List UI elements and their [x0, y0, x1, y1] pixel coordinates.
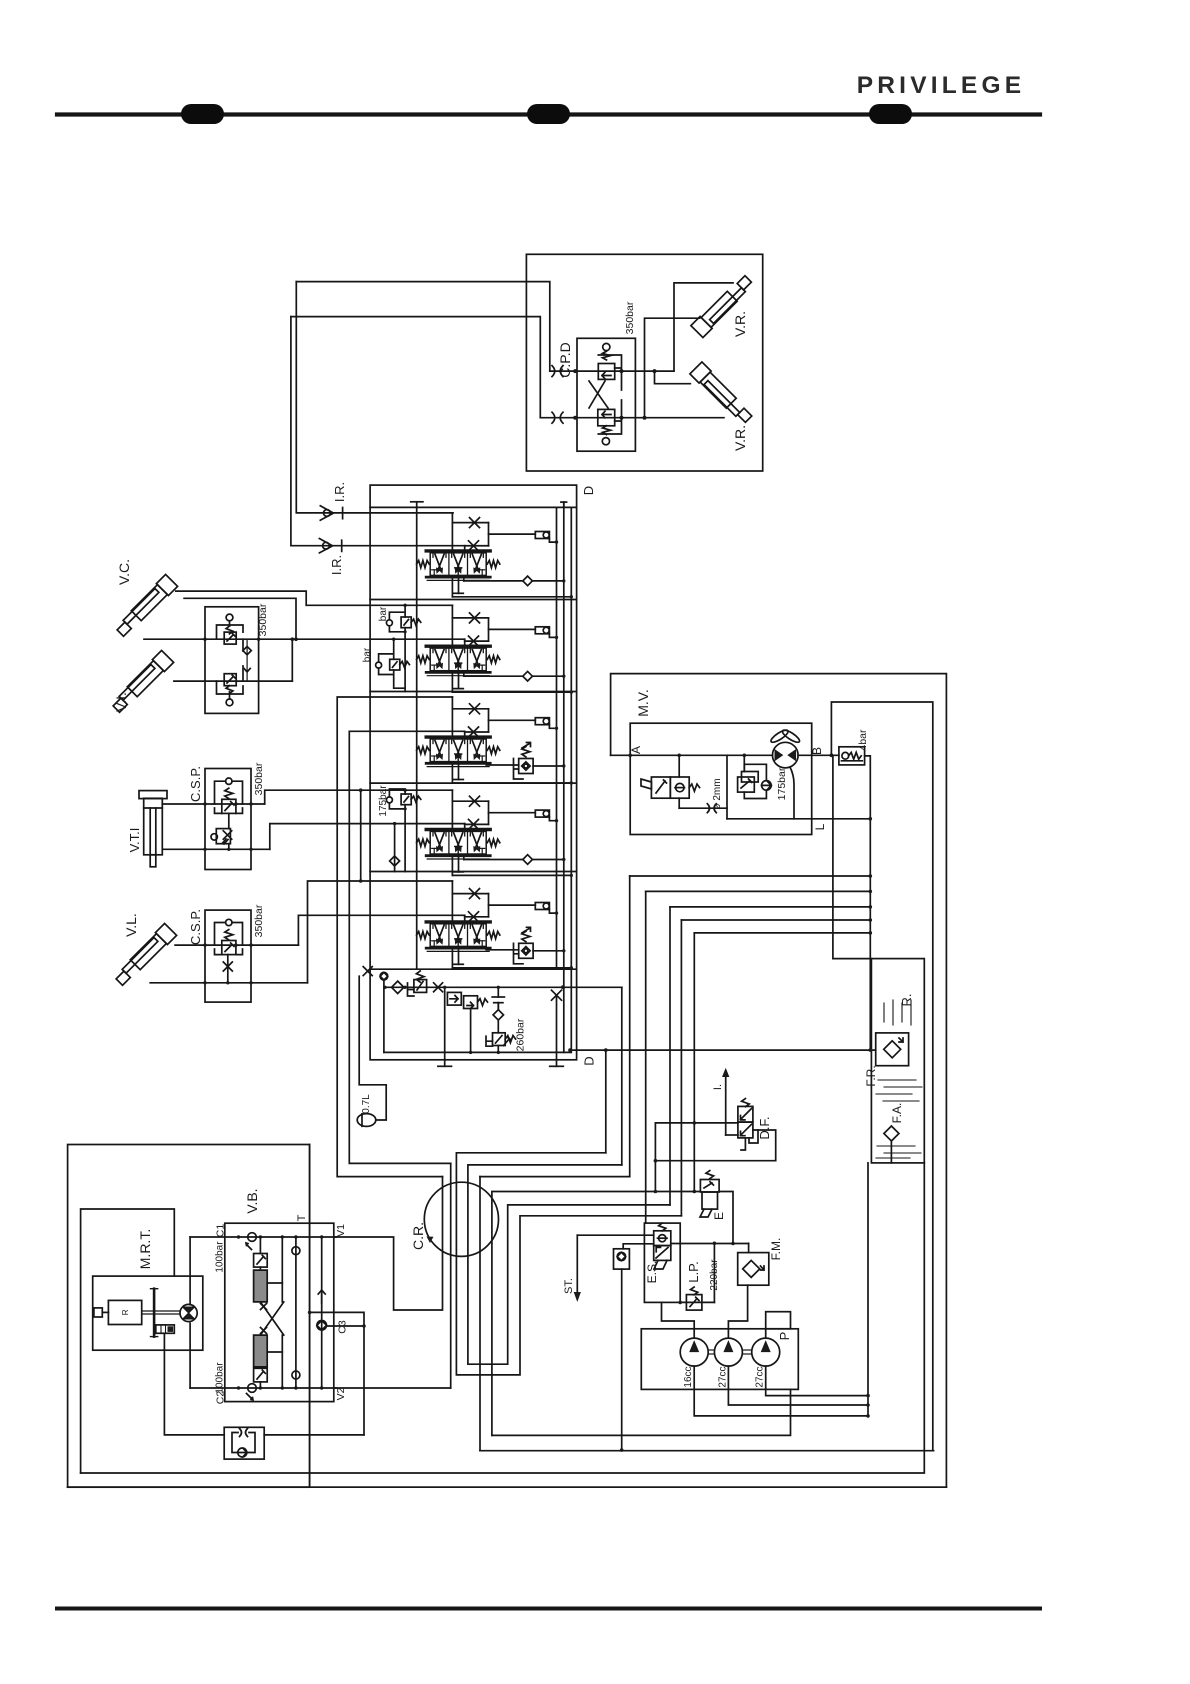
svg-text:bar: bar: [378, 606, 389, 621]
shuttle diamond endblock: [493, 1010, 503, 1020]
wire V1 staircase: [334, 1177, 443, 1310]
solenoid valve MV: [651, 777, 670, 798]
box M.R.T.: [81, 1209, 175, 1473]
wire IR line 1: [296, 282, 453, 513]
wire FM to P2: [728, 1285, 747, 1338]
wire circle v2: [450, 1163, 452, 1388]
section 5 port vertical A: [451, 881, 453, 922]
section 1 drain stub: [458, 577, 460, 593]
wire P1 out: [694, 1366, 868, 1416]
hydraulic motor MV: [773, 742, 799, 768]
check valve lower (CPD): [598, 409, 615, 425]
svg-text:L: L: [813, 823, 827, 830]
orifice circle C1: [248, 1233, 257, 1242]
wire return L2: [646, 890, 871, 892]
wire P line riser: [621, 987, 623, 1165]
svg-text:M.R.T.: M.R.T.: [137, 1229, 153, 1269]
svg-text:F.A.: F.A.: [890, 1103, 904, 1124]
wire to cyl2 cap: [655, 371, 691, 384]
M.V. box: [630, 723, 812, 834]
box bottom-left outer: [68, 1145, 310, 1488]
relief valve bar lower (sec2): [390, 659, 400, 670]
wire check line B: [540, 417, 724, 419]
cylinder V.C.: [114, 574, 178, 638]
orifice circle C2: [248, 1384, 257, 1393]
wire ST branch: [577, 1234, 653, 1236]
wire circle top link: [480, 1176, 630, 1178]
header pill 2: [527, 104, 570, 124]
check box bottom: [224, 1427, 264, 1459]
accumulator wire: [359, 976, 386, 1120]
svg-text:I.: I.: [712, 1084, 724, 1090]
wire VTI top port: [162, 803, 264, 805]
cylinder V.L.: [113, 923, 177, 987]
bracket 175bar sec4: [389, 789, 405, 872]
section 1 plug X upper: [470, 518, 480, 528]
ball circle lower: [602, 438, 609, 445]
wire VI bottom line: [174, 680, 292, 682]
wire VL top port: [175, 944, 298, 946]
section 5 compensator valve: [519, 943, 533, 958]
footer rule: [57, 1607, 1040, 1611]
svg-text:260bar: 260bar: [515, 1018, 527, 1051]
svg-text:27cc: 27cc: [755, 1366, 766, 1387]
svg-text:D: D: [582, 1056, 597, 1065]
section 2 wire B to coil: [488, 618, 490, 641]
section 2 drain stub: [458, 673, 460, 689]
header pill 1: [181, 104, 224, 124]
relief 100bar upper: [254, 1254, 268, 1268]
section 3 plug X lower: [469, 727, 479, 737]
wire C2 line: [190, 1387, 336, 1389]
valve bank outer box: [370, 485, 576, 1060]
section 5 coil drain hook: [549, 910, 556, 914]
wire B line: [798, 754, 839, 756]
section 4 plug X lower: [469, 819, 479, 829]
section 2 bridge line: [452, 617, 488, 619]
section 5 plug X upper: [470, 889, 480, 899]
svg-text:C.S.P.: C.S.P.: [188, 766, 203, 802]
svg-text:PRIVILEGE: PRIVILEGE: [857, 72, 1026, 99]
reducer valve endblock: [464, 996, 478, 1009]
section 1 lower rail line: [451, 577, 453, 597]
section 5 port vertical B: [464, 915, 466, 922]
svg-text:F.R.: F.R.: [864, 1065, 878, 1086]
cross over X pattern: [260, 1302, 283, 1335]
section 1 wire B to coil: [488, 523, 490, 546]
gauge link: [623, 1244, 654, 1249]
svg-text:350bar: 350bar: [624, 301, 636, 334]
section 3 compensator line: [486, 764, 519, 766]
svg-text:350bar: 350bar: [253, 762, 265, 795]
solenoid flag E.S.: [654, 1260, 667, 1269]
bus wire sec3 A: [337, 697, 452, 1177]
throttle X CSP2: [223, 962, 232, 971]
relief 220bar: [686, 1295, 702, 1311]
wire helm to check box: [164, 1333, 364, 1435]
wire FM top: [748, 1243, 750, 1252]
section 5 plug X lower: [469, 912, 479, 922]
wire bottom rail A: [492, 1389, 791, 1435]
svg-text:V.T.I: V.T.I: [127, 828, 142, 853]
wire P2 out: [728, 1366, 868, 1405]
cylinder V.R. lower: [690, 362, 754, 426]
wire VL bottom to sec5: [308, 881, 453, 983]
bracket lower check: [598, 400, 621, 434]
check valve upper (VC box): [224, 632, 236, 644]
wire V2 line: [334, 1387, 451, 1389]
svg-text:R.: R.: [899, 994, 914, 1007]
accumulator E: [700, 1180, 719, 1193]
svg-text:V.I.: V.I.: [113, 692, 129, 712]
bank top inner rail: [370, 506, 576, 508]
section dividers: [370, 599, 576, 601]
check diamond sec4: [394, 824, 396, 872]
section 4 plug X upper: [470, 796, 480, 806]
wire helm ports riser: [189, 1237, 191, 1305]
throttle X endblock: [434, 983, 443, 992]
svg-text:V.L.: V.L.: [123, 913, 139, 937]
section 4 bridge line: [452, 800, 488, 802]
section 4 lower rail line: [451, 856, 453, 876]
bracket bar upper: [389, 605, 405, 691]
section 1 shuttle line: [463, 577, 465, 581]
wire VTI bottom port: [162, 848, 269, 850]
wire DF pilot: [741, 1130, 758, 1150]
section 2 shuttle diamond: [524, 672, 532, 680]
valve D.F.: [738, 1106, 753, 1122]
bank right P rail: [556, 507, 558, 969]
svg-text:T: T: [296, 1214, 308, 1221]
section 5 drain stub: [458, 948, 460, 964]
tank liquid hatches: [883, 1003, 885, 1022]
helm small square: [94, 1308, 102, 1317]
connector I.R. 2: [323, 542, 330, 549]
wire P3 out: [766, 1366, 868, 1396]
wire to cyl1 cap: [674, 283, 733, 371]
box C.S.P. 1: [205, 769, 251, 870]
section 4 pilot coil Y4: [535, 810, 549, 817]
bracket bar lower: [379, 639, 406, 688]
wire B branch to tank: [833, 755, 872, 958]
relief 100bar lower: [254, 1368, 268, 1382]
svg-text:D.F.: D.F.: [757, 1116, 772, 1139]
throttle check CSP1: [216, 829, 230, 844]
section 2 coil drain hook: [549, 634, 556, 638]
wire C3 out: [327, 1325, 365, 1327]
wire circle v3 U-turn: [456, 1153, 681, 1375]
bank right T2 rail: [563, 502, 565, 1052]
valve E.S.: [654, 1231, 671, 1246]
svg-text:ST.: ST.: [563, 1278, 575, 1294]
reducer drain endblock: [470, 1009, 472, 1053]
section 4 port vertical B: [464, 824, 466, 830]
wire DF left: [655, 1122, 738, 1124]
svg-text:E: E: [712, 1212, 726, 1220]
bus wire sec3 B: [349, 731, 464, 1163]
wire B riser to right bus: [831, 702, 932, 1450]
section 1 shuttle diamond: [524, 577, 532, 585]
pump aux box: [766, 1312, 791, 1329]
section 5 pilot coil Y5: [535, 903, 549, 910]
wire P1 inlet: [662, 1302, 695, 1338]
ball circle upper: [603, 343, 610, 350]
section 5 valve DV5: [417, 922, 500, 952]
gauge line: [671, 1243, 749, 1245]
wire bottom rail C: [81, 1163, 925, 1473]
VB internal verticals: [281, 1237, 283, 1302]
section 2 port vertical B: [464, 639, 466, 646]
section 3 port vertical B: [464, 731, 466, 737]
wire C1 line: [190, 1236, 336, 1238]
box helm pump: [93, 1276, 203, 1350]
section 3 port vertical A: [451, 697, 453, 737]
plug X port A: [552, 366, 555, 377]
end block ball: [380, 972, 388, 980]
wire orifice riser: [726, 755, 728, 819]
plug X port B: [552, 412, 555, 423]
cylinder V.R. upper: [691, 274, 755, 338]
filter F.A.: [884, 1126, 899, 1141]
bracket upper check: [598, 355, 621, 390]
check valve upper (CPD): [598, 364, 614, 380]
svg-text:ø 2mm: ø 2mm: [712, 778, 723, 809]
section 2 valve DV2: [417, 646, 500, 676]
section 3 compensator valve: [519, 759, 533, 774]
section 1 port vertical B: [464, 546, 466, 551]
svg-text:I.R.: I.R.: [329, 555, 344, 575]
svg-text:bar: bar: [362, 647, 373, 662]
svg-text:F.M.: F.M.: [769, 1238, 783, 1261]
compensator hatched lower: [254, 1335, 268, 1367]
filter diamond endblock: [392, 981, 404, 993]
svg-text:I.R.: I.R.: [332, 482, 347, 502]
svg-text:C.S.P.: C.S.P.: [188, 909, 203, 945]
check valve MV: [762, 781, 772, 791]
svg-text:16cc: 16cc: [683, 1366, 694, 1387]
section 4 wire B to coil: [488, 801, 490, 824]
end block plug X left: [363, 967, 372, 976]
svg-text:175bar: 175bar: [776, 767, 788, 800]
arrow I.: [725, 1077, 727, 1135]
relief valve endblock: [414, 980, 427, 993]
section 3 wire B to coil: [488, 709, 490, 732]
svg-text:100bar: 100bar: [215, 1241, 226, 1273]
reservoir R. box: [871, 959, 924, 1163]
svg-text:E.S.: E.S.: [645, 1261, 659, 1284]
svg-text:V.R.: V.R.: [732, 425, 748, 451]
wire VI top line: [144, 638, 465, 640]
wire P3 inlet: [765, 1329, 767, 1338]
wire tank suction: [867, 1163, 869, 1416]
section 3 plug X upper: [470, 704, 480, 714]
section 4 valve DV4: [417, 830, 500, 860]
svg-text:P: P: [777, 1332, 792, 1341]
pump 3 (27cc): [752, 1338, 780, 1366]
section 5 lower rail line: [451, 948, 453, 968]
wire return V1d: [629, 876, 631, 1177]
gauge box: [614, 1249, 630, 1269]
inner box pilot check pair: [577, 338, 635, 451]
block L.P.: [644, 1223, 680, 1302]
section 4 port vertical A: [451, 790, 453, 829]
VB check arrow: [318, 1290, 325, 1303]
svg-text:C3: C3: [337, 1320, 349, 1334]
wire bank bottom to FR: [570, 1049, 876, 1051]
helm shaft: [102, 1311, 108, 1313]
relief valve CSP1: [222, 799, 236, 813]
wire VC rod port: [184, 598, 296, 639]
wire IR line 2: [291, 317, 489, 546]
svg-text:C.R.: C.R.: [410, 1222, 426, 1250]
svg-text:L.P.: L.P.: [686, 1261, 701, 1282]
section 5 compensator line: [486, 949, 519, 951]
plug X right rail: [552, 990, 562, 1000]
wire return L1: [630, 875, 871, 877]
section 5 compensator bracket: [514, 943, 524, 964]
wire circle v5: [479, 1177, 481, 1451]
wire circle v6: [492, 1192, 701, 1436]
wire VC top port: [176, 591, 453, 605]
section 2 pilot coil Y2: [535, 627, 549, 634]
drain leg 1 endblock: [444, 987, 446, 1066]
helm outlet fitting: [156, 1325, 175, 1333]
section 4 shuttle line: [463, 856, 465, 860]
section 4 shuttle diamond: [524, 856, 532, 864]
section 5 wire B to coil: [488, 894, 490, 917]
filter F.M.: [738, 1253, 769, 1286]
wire return V4d: [680, 920, 682, 1216]
svg-text:B: B: [810, 747, 824, 755]
wire D net riser: [605, 1050, 607, 1153]
wire 4bar to tank: [865, 756, 871, 1050]
compensator hatched upper: [254, 1270, 268, 1302]
section 2 shuttle line: [463, 673, 465, 677]
filter F.R.: [876, 1033, 909, 1066]
wire return L5: [694, 932, 870, 934]
section 1 port vertical A: [451, 513, 453, 551]
wire CPD line A upper: [296, 282, 550, 372]
section 5 bridge line: [452, 893, 488, 895]
wire VB V1 to circle (done above) / bottom second rail: [68, 1486, 947, 1488]
valve 4bar: [839, 747, 865, 765]
cylinder V.I.: [110, 650, 174, 714]
wire VL top to sec5: [298, 915, 464, 945]
helm pump circle: [180, 1304, 197, 1321]
svg-text:C.P.D: C.P.D: [557, 342, 573, 378]
section 2 lower rail line: [451, 673, 453, 693]
section 1 bridge line: [452, 522, 488, 524]
wire return V3d: [669, 907, 671, 1205]
bank top-right T box: [561, 501, 567, 503]
section 3 pilot coil Y3: [535, 718, 549, 725]
section 3 coil drain hook: [549, 725, 556, 729]
check valve lower (VC box): [224, 674, 236, 686]
section 3 bridge line: [452, 708, 488, 710]
pilot cap symbol endblock: [497, 987, 499, 997]
section 1 valve DV1: [417, 551, 500, 581]
svg-text:27cc: 27cc: [717, 1366, 728, 1387]
relief valve bar upper (sec2): [401, 617, 411, 628]
section 3 valve DV3: [417, 737, 500, 767]
check bracket endblock: [447, 992, 461, 1005]
orifice 2mm: [707, 804, 709, 813]
VB V1V2 rail: [321, 1237, 323, 1388]
header pill 3: [869, 104, 912, 124]
wire return L3: [670, 906, 870, 908]
wire solenoid branch: [678, 755, 680, 777]
svg-text:4bar: 4bar: [857, 729, 869, 751]
end block bottom rail: [384, 1051, 570, 1053]
box V.B.: [225, 1223, 334, 1401]
wire return V2d: [645, 891, 647, 1223]
svg-text:M.V.: M.V.: [635, 689, 651, 717]
accumulator 0.7L: [357, 1114, 376, 1127]
section 2 port vertical A: [451, 605, 453, 646]
svg-text:0.7L: 0.7L: [361, 1094, 372, 1114]
bank T tick top: [411, 501, 423, 503]
cylinder V.T.I: [144, 798, 163, 855]
section 2 plug X lower: [469, 636, 479, 646]
bus wire VTI-VL link: [360, 790, 362, 881]
wire 220bar: [713, 1243, 715, 1302]
steering wheel bar: [153, 1289, 156, 1337]
pump 1 (16cc): [680, 1338, 708, 1366]
wire return L4: [681, 919, 870, 921]
wire DF loop: [655, 1123, 775, 1161]
svg-text:C1: C1: [215, 1224, 227, 1238]
pump unit box: [641, 1329, 798, 1390]
svg-text:V.C.: V.C.: [116, 559, 132, 585]
section 1 coil drain hook: [549, 539, 556, 543]
box 350bar VC/VI: [205, 607, 259, 714]
wire L line: [727, 818, 870, 820]
section 3 compensator bracket: [514, 759, 524, 780]
enclosure box C.P.D: [526, 254, 762, 471]
wire A line: [611, 754, 773, 756]
svg-text:350bar: 350bar: [253, 904, 265, 937]
wire circle v4 U-turn: [468, 1165, 670, 1364]
section 1 plug X lower: [469, 541, 479, 551]
svg-text:D: D: [581, 486, 596, 495]
section 3 lower rail line: [451, 763, 453, 783]
pump 2 (27cc): [714, 1338, 742, 1366]
svg-text:100bar: 100bar: [215, 1362, 226, 1394]
svg-text:V2: V2: [335, 1387, 347, 1400]
gauge drain: [621, 1269, 623, 1450]
wire check line A: [550, 370, 674, 372]
bank right D rail: [570, 507, 572, 1052]
propeller fan: [769, 728, 789, 744]
relief valve 175bar (sec4): [401, 794, 411, 805]
svg-text:R: R: [121, 1309, 130, 1315]
svg-text:V1: V1: [335, 1224, 347, 1237]
relief 260bar: [497, 1020, 499, 1033]
wire T to C3 riser: [310, 1312, 364, 1435]
flow regulator MV: [738, 777, 755, 792]
wire motor drain: [790, 767, 794, 819]
svg-text:V.B.: V.B.: [244, 1188, 260, 1213]
svg-text:V.R.: V.R.: [732, 311, 748, 337]
wire VL bottom port: [150, 982, 307, 984]
section 4 drain stub: [458, 856, 460, 872]
svg-text:350bar: 350bar: [257, 603, 269, 636]
end block pressure line: [384, 986, 622, 988]
section 2 plug X upper: [470, 613, 480, 623]
bank T rail vertical: [416, 507, 418, 969]
wire CPD line B upper: [291, 317, 540, 418]
wire E link: [719, 1192, 733, 1244]
